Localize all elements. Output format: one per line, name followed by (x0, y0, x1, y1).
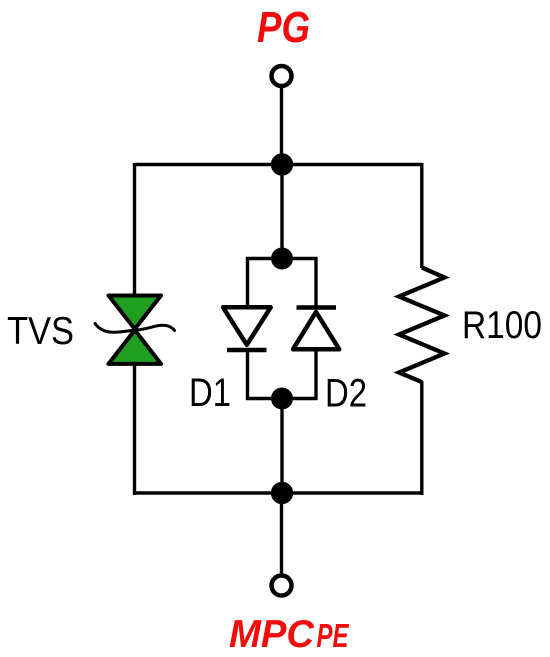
wire left branch upper (133, 163, 136, 296)
svg-text:D2: D2 (325, 372, 367, 416)
node MPCPE label (229, 613, 349, 656)
wire bottom junction to MPC terminal (280, 493, 283, 574)
node diode-loop top (271, 248, 293, 270)
svg-text:D1: D1 (189, 371, 231, 415)
wire diode loop left upper (246, 257, 249, 308)
terminal MPC (272, 576, 292, 596)
svg-text:MPC: MPC (229, 613, 315, 656)
diode D1 (anode up, cathode down) (223, 307, 271, 350)
svg-text:R100: R100 (462, 304, 542, 347)
wire PG terminal to top junction (280, 88, 283, 164)
wire left branch lower (133, 363, 136, 495)
terminal PG (272, 66, 292, 86)
wire bottom rail (135, 491, 422, 494)
wire diode loop right lower (314, 349, 317, 400)
wire right branch upper (420, 163, 423, 268)
svg-text:TVS: TVS (7, 310, 74, 353)
wire diode loop bottom rail (246, 397, 318, 400)
wire top rail (135, 163, 422, 166)
diode D2 (cathode up, anode down) (293, 308, 339, 350)
svg-text:PG: PG (257, 3, 310, 52)
TVS diode (bidirectional, green) (95, 296, 175, 364)
wire diode loop left lower (246, 350, 249, 400)
node diode-loop bottom (271, 388, 293, 410)
node top junction (271, 153, 293, 175)
wire diode loop right upper (314, 257, 317, 308)
wire center vertical (top junction to diode-loop top node) (280, 164, 283, 258)
wire center vertical (diode-loop bottom to bottom junction) (280, 398, 283, 493)
resistor R100 zigzag (399, 268, 445, 383)
wire diode loop top rail (246, 257, 318, 260)
wire right branch lower (420, 381, 423, 495)
svg-text:PE: PE (317, 617, 350, 654)
node bottom junction (271, 482, 293, 504)
